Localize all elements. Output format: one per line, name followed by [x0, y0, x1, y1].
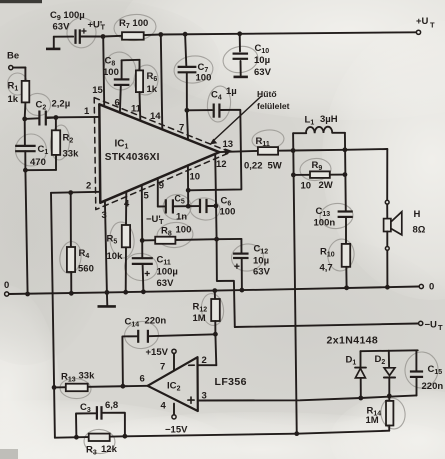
node top-rail junction pin14 [158, 32, 163, 37]
node bottom-rail junction output branch [294, 431, 299, 436]
node output junction left [291, 148, 296, 153]
svg-text:H: H [414, 209, 421, 220]
node R13 junction [52, 385, 57, 390]
node diode D2 bottom junction [387, 394, 392, 399]
svg-text:100: 100 [176, 225, 192, 236]
node C1 bottom junction [23, 168, 28, 173]
node R9 junction left [291, 173, 296, 178]
svg-text:3µH: 3µH [320, 114, 338, 125]
svg-text:2x1N4148: 2x1N4148 [327, 335, 379, 347]
label +U'T [88, 20, 106, 32]
wire R1 to C2 node [24, 102, 27, 119]
wire IC2 pin 7 [173, 353, 175, 370]
svg-text:560: 560 [78, 264, 94, 275]
resistor R7 [119, 18, 148, 40]
svg-text:100: 100 [220, 207, 236, 218]
node 0-rail junction R5 [123, 290, 128, 295]
wire IC1 pin 15 [92, 37, 104, 105]
wire C8-R6 top link [122, 59, 140, 62]
ground C9 [46, 37, 60, 49]
capacitor C7 [178, 34, 212, 110]
wire R2 bottom [25, 155, 56, 170]
speaker H 8ohm [384, 209, 426, 236]
svg-text:63V: 63V [53, 22, 71, 33]
capacitor C5 [166, 194, 187, 223]
svg-text:+15V: +15V [146, 347, 169, 358]
wire C5-C6 link [174, 205, 199, 207]
svg-text:1M: 1M [366, 415, 379, 426]
node C14-R12-pin2 junction [213, 332, 218, 337]
wire output to speaker branch [293, 149, 387, 151]
resistor R11 [244, 136, 282, 172]
wire Be to R1 [13, 68, 26, 81]
wire C2 left [25, 117, 39, 120]
label R12 1M [193, 302, 208, 325]
terminal speaker bottom [385, 247, 389, 251]
capacitor C8 [103, 56, 129, 85]
node +UT-prime junction [101, 34, 106, 39]
diode D2 [375, 351, 396, 396]
node input junction [22, 117, 27, 122]
node pin5-R8 junction [140, 238, 145, 243]
wire IC2 pin 6 output [54, 374, 148, 388]
wire L1 branch left [293, 133, 297, 433]
wire C1 node to 0 rail [25, 170, 27, 294]
svg-text:STK4036XI: STK4036XI [105, 152, 160, 163]
svg-text:+U: +U [416, 16, 429, 27]
wire speaker top [386, 149, 388, 200]
node 0-rail junction pin3 [105, 290, 110, 295]
node C7-pin7 junction [185, 108, 190, 113]
terminal 0 left [4, 280, 9, 296]
resistor R1 [8, 81, 30, 106]
svg-text:63V: 63V [157, 278, 175, 289]
resistor R2 [52, 118, 79, 160]
svg-text:10k: 10k [107, 251, 124, 262]
svg-text:10µ: 10µ [254, 55, 270, 66]
node 0-rail junction input [25, 292, 30, 297]
svg-text:15: 15 [92, 85, 103, 96]
svg-text:7: 7 [179, 123, 184, 134]
terminal -15V [161, 401, 189, 436]
resistor R12 [211, 291, 220, 334]
capacitor C6 [200, 196, 235, 218]
node 0-rail junction R10 [344, 285, 349, 290]
svg-text:felülelet: felülelet [257, 101, 290, 111]
svg-text:220n: 220n [145, 316, 167, 327]
svg-text:LF356: LF356 [215, 376, 247, 388]
wire IC1 pin 10 [188, 165, 200, 206]
svg-text:−U: −U [425, 320, 438, 331]
label -U'T [146, 214, 164, 226]
svg-text:1k: 1k [147, 84, 158, 95]
wire IC1 pin 5 [142, 186, 150, 241]
capacitor C2 [36, 99, 71, 126]
capacitor C15 [410, 350, 443, 395]
label Hűtő felülelet [257, 89, 290, 111]
node 0-rail junction C12 [240, 288, 245, 293]
resistor R5 [107, 225, 131, 292]
svg-text:4: 4 [161, 401, 167, 412]
ground C10 [234, 76, 248, 79]
terminal +UT [416, 30, 420, 34]
node C6-pin12 junction [214, 204, 219, 209]
terminal 0 right [419, 282, 434, 293]
svg-text:33k: 33k [63, 149, 80, 160]
wire C2 right [47, 117, 56, 120]
wire IC1 pin 4 [124, 191, 130, 225]
node pin2 junction R4 [68, 190, 73, 195]
node 0-rail junction R4 [69, 291, 74, 296]
wire IC1 pin 2 [51, 181, 100, 193]
wire speaker feed [386, 204, 388, 218]
label +UT [416, 16, 435, 30]
svg-text:5W: 5W [268, 161, 282, 172]
node bottom-rail junction C3 left [74, 435, 79, 440]
terminal speaker top [385, 200, 389, 204]
svg-text:63V: 63V [254, 67, 272, 78]
svg-text:0,22: 0,22 [244, 161, 263, 172]
svg-text:R7 100: R7 100 [119, 18, 148, 30]
wire IC1 pin 7 [179, 110, 188, 139]
wire IC1 pin 9 [158, 178, 164, 207]
wire C6 to pin12 line [208, 205, 216, 207]
svg-text:33k: 33k [79, 371, 96, 382]
svg-text:63V: 63V [253, 267, 271, 278]
svg-text:−15V: −15V [165, 425, 188, 436]
svg-text:11: 11 [131, 104, 142, 115]
node 0-rail junction R12 [212, 288, 217, 293]
svg-text:9: 9 [159, 181, 164, 192]
resistor R13 [61, 371, 95, 392]
wire pin9 to C5 [158, 205, 165, 207]
wire speaker to 0 rail [386, 251, 388, 288]
svg-text:0: 0 [429, 282, 434, 293]
svg-text:1M: 1M [193, 313, 206, 324]
capacitor C4 [187, 86, 237, 118]
node R9 junction right [343, 172, 348, 177]
svg-text:12: 12 [216, 159, 227, 170]
wire 0 rail [9, 287, 419, 295]
svg-text:2W: 2W [319, 180, 333, 191]
resistor R8 [142, 225, 216, 244]
resistor R3 [86, 434, 118, 457]
node 0-rail junction speaker [385, 285, 390, 290]
label LF356 [215, 376, 247, 388]
svg-text:5: 5 [144, 191, 150, 202]
node top-rail junction C10 [237, 31, 242, 36]
node top-rail junction C7 [183, 32, 188, 37]
wire bottom rail [55, 431, 389, 438]
node pin10 junction [186, 188, 191, 193]
wire IC2 pin 3 [198, 391, 417, 402]
svg-text:2: 2 [202, 355, 207, 366]
capacitor C14 [122, 316, 215, 387]
svg-text:Be: Be [7, 51, 19, 62]
svg-text:1: 1 [84, 106, 90, 117]
svg-text:4: 4 [124, 199, 130, 210]
node bottom-rail junction C3 right [123, 434, 128, 439]
wire IC1 pin 13 output [219, 139, 258, 154]
wire L1 right branch [344, 133, 347, 212]
svg-text:220n: 220n [422, 381, 444, 392]
svg-text:T: T [438, 323, 443, 332]
svg-text:T: T [430, 21, 435, 30]
svg-text:100µ: 100µ [157, 267, 178, 278]
wire diode box top [361, 349, 418, 352]
capacitor C9 [50, 10, 87, 44]
node output junction right [343, 147, 348, 152]
svg-text:6: 6 [140, 374, 145, 385]
resistor R6 [136, 60, 158, 95]
op-amp IC1 [99, 104, 219, 202]
svg-text:10: 10 [301, 181, 312, 192]
wire IC1 pin 11 [131, 92, 142, 120]
wire C9 left to ground riser [54, 36, 73, 38]
op-amp IC2 [148, 357, 198, 411]
op-amp IC1 dashed heatsink outline [94, 98, 230, 210]
capacitor C10 [233, 34, 272, 78]
wire IC1 pin 3 [102, 201, 107, 293]
svg-text:10: 10 [190, 172, 201, 183]
wire IC1 pin 12 [215, 154, 235, 327]
svg-text:12k: 12k [101, 444, 118, 455]
node pin6-C14 junction [121, 384, 126, 389]
wire +UT top rail [103, 32, 416, 36]
capacitor C11 [132, 240, 178, 291]
svg-text:6: 6 [115, 98, 120, 109]
svg-text:470: 470 [30, 157, 46, 168]
svg-text:14: 14 [150, 111, 161, 122]
svg-text:3: 3 [202, 391, 207, 402]
svg-text:100: 100 [103, 67, 119, 78]
wire R11 to L1 node [278, 150, 293, 152]
svg-text:1n: 1n [176, 212, 187, 223]
terminal Be input [7, 51, 19, 70]
wire C9 right to +UT-prime node [81, 36, 103, 38]
svg-text:3: 3 [102, 210, 107, 221]
node diode D1 bottom junction [358, 396, 363, 401]
resistor R14 [366, 396, 394, 431]
svg-text:100: 100 [196, 73, 212, 84]
label 2x1N4148 [327, 335, 379, 347]
wire IC1 pin 14 [150, 35, 162, 130]
svg-text:2: 2 [86, 181, 91, 192]
capacitor C12 [217, 239, 271, 290]
svg-text:8Ω: 8Ω [413, 225, 426, 236]
resistor R4 [67, 193, 94, 294]
svg-text:1µ: 1µ [226, 86, 237, 97]
svg-text:7: 7 [160, 362, 165, 373]
svg-text:1k: 1k [8, 94, 19, 105]
node pin10-C5C6 junction [186, 204, 191, 209]
svg-text:T: T [101, 23, 106, 32]
resistor R10 [320, 244, 351, 288]
svg-text:0: 0 [4, 280, 9, 291]
capacitor C1 [15, 119, 48, 170]
svg-text:13: 13 [223, 139, 234, 150]
svg-text:4,7: 4,7 [320, 263, 333, 274]
svg-text:100n: 100n [314, 218, 336, 229]
capacitor C13 [314, 206, 353, 244]
wire IC1 pin 1 [47, 106, 100, 117]
node 0-rail junction C11 [141, 289, 146, 294]
svg-text:2,2µ: 2,2µ [52, 99, 71, 110]
svg-text:6,8: 6,8 [105, 400, 118, 411]
wire pin2 feedback vertical [51, 193, 55, 438]
wire IC2 pin 4 [173, 404, 175, 415]
wire C4 to pin10 node [188, 110, 241, 191]
wire speaker bottom [386, 232, 388, 247]
inductor L1 [293, 114, 345, 133]
svg-text:C9 100µ: C9 100µ [50, 10, 85, 22]
node pin1 junction R2 [54, 115, 59, 120]
resistor R9 [293, 160, 345, 192]
terminal -UT [419, 320, 443, 333]
wire IC2 pin 2 [198, 334, 217, 366]
ground main [98, 292, 116, 306]
wire -UT rail [235, 324, 418, 328]
node R8-pin12 junction [214, 237, 219, 242]
wire IC1 pin 6 [115, 86, 121, 113]
svg-text:10µ: 10µ [253, 256, 269, 267]
diode D1 [346, 351, 366, 396]
wire heatsink arrow [210, 97, 261, 145]
terminal +15V [146, 347, 177, 373]
capacitor C3 [76, 400, 125, 437]
